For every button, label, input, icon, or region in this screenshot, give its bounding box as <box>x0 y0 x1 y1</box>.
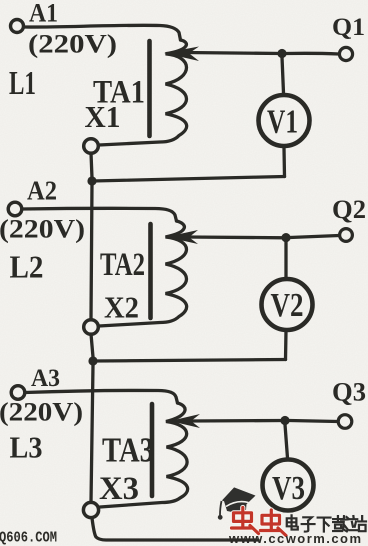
svg-text:Q1: Q1 <box>332 14 365 41</box>
transformer TA3 core bar <box>150 404 155 496</box>
svg-text:www.ccworm.com: www.ccworm.com <box>228 531 361 546</box>
svg-text:X2: X2 <box>104 290 139 325</box>
watermark graduation cap board <box>222 487 256 512</box>
terminal A3 <box>11 386 25 400</box>
svg-text:L2: L2 <box>10 249 44 285</box>
terminal X2 <box>84 320 99 335</box>
junction node Q1-V1 <box>277 49 286 58</box>
watermark graduation cap body <box>224 497 247 512</box>
watermark char xia <box>318 518 331 532</box>
wire X2 down to node <box>91 334 93 357</box>
svg-text:V3: V3 <box>272 470 305 507</box>
wire neutral horizontal section1 <box>92 177 285 182</box>
svg-text:Q2: Q2 <box>332 195 366 224</box>
transformer TA2 core bar <box>148 224 153 318</box>
junction node X2-V2 <box>88 356 97 365</box>
svg-text:(220V): (220V) <box>0 398 83 427</box>
voltmeter V1 <box>259 95 310 146</box>
watermark char zhan <box>350 516 366 531</box>
transformer TA2 winding <box>99 221 187 326</box>
watermark graduation cap tassel <box>220 501 222 515</box>
arrowhead wiper TA1 <box>164 47 199 62</box>
wire V1 top <box>282 57 284 93</box>
transformer TA1 winding <box>99 40 187 145</box>
terminal A1 <box>11 20 24 33</box>
svg-text:X1: X1 <box>85 99 121 134</box>
wire V2 bottom <box>284 331 288 360</box>
wire A1 to coil top <box>24 25 181 40</box>
wire V3 top <box>285 425 288 459</box>
wire V1 bottom <box>282 148 286 177</box>
wire X3 down and along bottom <box>92 518 258 540</box>
svg-text:A1: A1 <box>29 0 58 28</box>
svg-text:Q3: Q3 <box>332 378 366 407</box>
svg-text:A2: A2 <box>27 176 57 206</box>
wire dot to Q1 terminal <box>286 52 339 56</box>
terminal Q3 <box>338 415 352 429</box>
wire A3 to coil top <box>25 390 178 403</box>
svg-text:TA3: TA3 <box>102 431 154 470</box>
svg-text:V1: V1 <box>267 104 298 141</box>
wire X1 down to node <box>91 153 92 178</box>
svg-text:Q606.COM: Q606.COM <box>0 531 57 546</box>
terminal A2 <box>8 202 22 216</box>
wire neutral vertical to X2 <box>91 183 92 319</box>
arrowhead wiper TA2 <box>166 230 198 244</box>
wire dot to Q3 terminal <box>290 421 339 422</box>
wire dot to Q2 terminal <box>290 236 339 238</box>
junction node Q2-V2 <box>281 233 290 242</box>
voltmeter V2 <box>262 279 313 330</box>
svg-text:TA2: TA2 <box>100 247 145 283</box>
svg-text:(220V): (220V) <box>28 29 117 59</box>
wire V2 top <box>284 242 287 279</box>
terminal Q2 <box>340 229 353 242</box>
junction node X1-V1 <box>87 176 96 185</box>
terminal X3 <box>83 502 98 517</box>
wire A2 to coil top <box>22 208 177 221</box>
watermark char dian <box>287 515 298 529</box>
wire neutral horizontal section2 <box>93 360 286 362</box>
watermark red chongchong characters <box>232 508 287 536</box>
svg-text:L1: L1 <box>9 65 36 102</box>
wire arrow shaft Q3 <box>190 419 285 423</box>
transformer TA1 core bar <box>147 41 152 136</box>
svg-text:A3: A3 <box>31 365 60 392</box>
voltmeter V3 <box>263 460 314 511</box>
terminal Q1 <box>339 47 352 60</box>
arrowhead wiper TA3 <box>170 414 200 428</box>
svg-text:(220V): (220V) <box>0 215 85 244</box>
svg-text:V2: V2 <box>271 287 304 324</box>
wire arrow shaft Q2 <box>186 235 286 239</box>
junction node Q3-V3 <box>280 416 289 425</box>
wire neutral vertical to X3 <box>91 365 93 502</box>
terminal X1 <box>84 139 99 154</box>
watermark text dianzi xiazai zhan <box>287 515 366 531</box>
transformer TA3 winding <box>100 403 188 507</box>
watermark char zi <box>302 517 315 531</box>
svg-text:X3: X3 <box>99 471 139 507</box>
watermark char zai <box>333 516 349 531</box>
svg-text:L3: L3 <box>10 430 43 465</box>
wire arrow shaft Q1 <box>184 53 282 54</box>
watermark graduation cap highlight <box>226 502 249 507</box>
